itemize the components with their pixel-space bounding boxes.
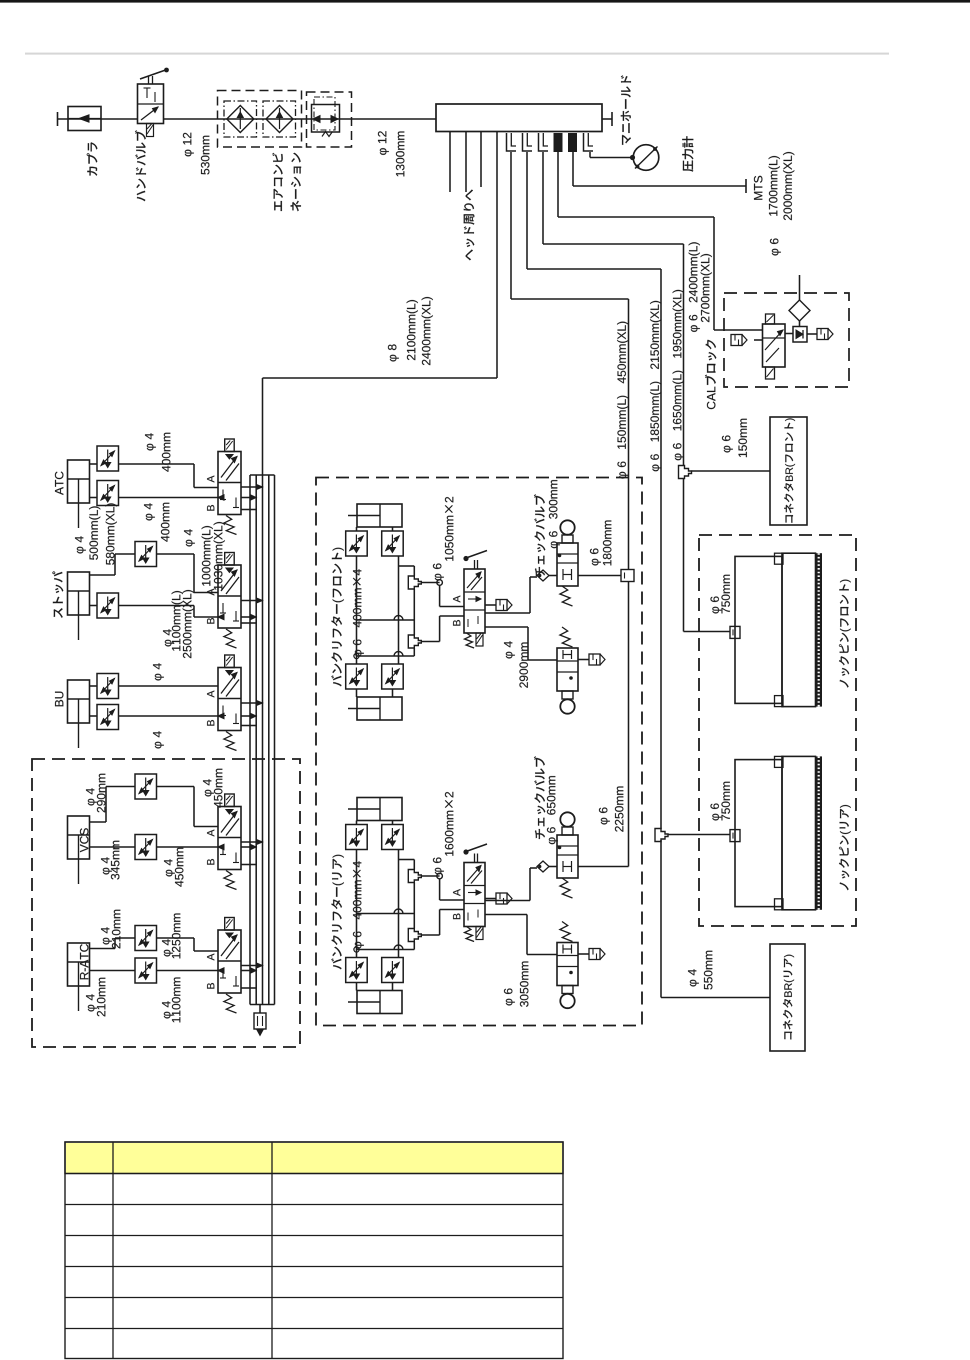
dashed box knock pins xyxy=(699,535,856,926)
cylinder bank lifter rear upper xyxy=(357,798,402,821)
CAL right muffler xyxy=(807,333,817,335)
wire check valve front output 1800mm xyxy=(578,575,621,577)
wire branch to knockpin rear (1850mm) xyxy=(526,152,528,269)
label バンクリフター(リア) xyxy=(331,855,344,970)
dashed box bank lifters xyxy=(316,478,642,1026)
speed controller bank lifter rear l2 xyxy=(392,983,394,991)
speed controller bank lifter front l2 xyxy=(392,689,394,697)
cylinder bank lifter front upper xyxy=(357,504,402,527)
wire front valve to check valve xyxy=(485,612,530,614)
connector BR front コネクタBR(フロント) xyxy=(770,417,807,525)
cylinder ATC xyxy=(68,460,90,503)
wires bank lifter front manifold tees xyxy=(356,556,358,664)
cylinder bank lifter front lower xyxy=(357,697,402,720)
pipe label φ8 2100/2400 xyxy=(388,344,399,361)
tee fitting bank lifter front B xyxy=(408,635,421,648)
CAL filter diamond xyxy=(789,300,810,321)
check valve front チェックバルブ xyxy=(557,543,578,586)
wire bank lifter rear tee1 to valve A xyxy=(421,875,439,877)
cylinder bank lifter rear lower xyxy=(357,991,402,1014)
pipe label φ4 (BU top) xyxy=(153,663,164,680)
pipe label φ4 500mm(L) 580mm(XL) xyxy=(75,536,86,553)
tee fitting knock pin rear feed xyxy=(655,829,668,842)
speed controller BU-1 xyxy=(90,685,98,687)
speed controller VCS-2 xyxy=(90,846,136,848)
hand valve ハンドバルブ xyxy=(138,84,164,124)
page top bar xyxy=(0,0,970,3)
hand valve bank lifter front xyxy=(464,569,485,633)
pipe label φ4 1100mm(L) 2500mm(XL) xyxy=(163,629,174,646)
pipe label φ4 210mm (R-ATC bottom) xyxy=(86,994,97,1011)
knock pin rear port fitting xyxy=(730,830,740,842)
regulator box xyxy=(307,92,352,147)
manifold マニホールド xyxy=(436,104,602,132)
header rule xyxy=(25,53,889,55)
speed controller ATC-1 xyxy=(90,463,98,465)
pipe label φ4 450mm (VCS top) xyxy=(203,779,214,796)
fitting on 150 line xyxy=(621,570,634,582)
speed controller stopper-1 xyxy=(90,574,116,576)
cylinder VCS xyxy=(68,816,90,859)
pressure gauge 圧力計 xyxy=(633,145,659,171)
dashed box VCS R-ATC xyxy=(32,759,300,1047)
speed controller bank lifter rear u2 xyxy=(392,821,394,825)
wire ATC A xyxy=(193,464,195,488)
muffler bank lifter front xyxy=(485,604,496,606)
speed controller VCS-1 xyxy=(90,821,107,823)
wire branch to connector BR front (1650mm) xyxy=(542,152,544,244)
valve BU solenoid 5/2 xyxy=(218,668,241,731)
knock pin front body xyxy=(735,556,782,703)
wire R-ATC A xyxy=(193,938,195,951)
wire supply main line xyxy=(58,118,138,120)
wire VCS A xyxy=(193,787,195,827)
valve 3/2 front xyxy=(557,648,578,691)
check valve front diamond xyxy=(537,570,549,581)
valve stopper solenoid 5/2 xyxy=(218,565,241,628)
wire front valve B to 3/2 valve xyxy=(485,626,528,628)
pipe label φ4 1100mm xyxy=(162,1001,173,1018)
pipe label φ4 450mm (VCS bottom) xyxy=(164,859,175,876)
knock pin rear body xyxy=(735,760,782,907)
pipe label φ12 1300mm xyxy=(378,131,389,155)
pipe label φ4 (BU bottom) xyxy=(153,731,164,748)
wire bank lifter front tee1 to valve A xyxy=(421,582,439,584)
pipe label φ4 345mm xyxy=(101,857,112,874)
speed controller bank lifter rear l1 xyxy=(356,983,358,991)
rail end fitting xyxy=(259,1005,261,1014)
wire MTS branch xyxy=(572,152,574,186)
muffler bank lifter rear xyxy=(485,898,496,900)
speed controller BU-2 xyxy=(90,715,98,717)
speed controller ATC-2 xyxy=(90,497,98,499)
speed controller R-ATC-1 xyxy=(90,948,116,950)
CAL left muffler xyxy=(754,339,763,341)
valve 3/2 rear xyxy=(557,943,578,986)
parts table xyxy=(65,1142,563,1359)
pipe label φ4 400mm (ATC) xyxy=(145,433,156,450)
valve ATC solenoid 5/2 xyxy=(218,452,241,515)
muffler 3/2 rear xyxy=(578,953,589,955)
wire bank lifter rear tee2 to valve B xyxy=(421,934,439,936)
lines to head area ヘッド周りへ xyxy=(449,132,451,193)
label バンクリフター(フロント) xyxy=(331,548,344,687)
coupler カプラ xyxy=(57,112,59,126)
speed controller bank lifter front l1 xyxy=(356,689,358,697)
pipe label φ4 1000mm(L) 1030mm(XL) xyxy=(184,529,195,546)
speed controller bank lifter front u1 xyxy=(356,527,358,531)
check valve rear diamond xyxy=(537,861,549,872)
air combination unit エアコンビネーション xyxy=(218,91,302,148)
wire CAL block branch xyxy=(557,152,559,217)
valve R-ATC solenoid 5/2 xyxy=(218,930,241,993)
pipe label φ4 210mm (R-ATC top) xyxy=(101,927,112,944)
pipe label φ12 530mm xyxy=(183,133,194,157)
tee fitting bank lifter rear A xyxy=(408,870,421,883)
tee fitting bank lifter front A xyxy=(408,576,421,589)
speed controller stopper-2 xyxy=(90,605,98,607)
CAL check valve xyxy=(785,333,793,335)
manifold plugged ports xyxy=(554,133,563,152)
wires bank lifter rear manifold tees xyxy=(356,850,358,958)
CAL block CALブロック xyxy=(724,293,849,387)
check valve rear チェックバルブ xyxy=(557,835,578,878)
wire stopper A xyxy=(193,554,195,593)
wire bank lifter front tee2 to valve B xyxy=(421,641,439,643)
valve supply rail bus xyxy=(249,475,251,1005)
speed controller bank lifter rear u1 xyxy=(356,821,358,825)
wire rear valve to check valve xyxy=(485,900,530,902)
pipe label φ4 400mm (stopper) xyxy=(144,503,155,520)
knock pin front port fitting xyxy=(730,626,740,638)
wire branch to check valves (150mm) xyxy=(510,152,512,299)
wire phi8 feed to valve rail xyxy=(496,132,498,379)
cylinder ストッパ xyxy=(68,572,90,615)
manifold outlet fittings xyxy=(507,133,517,151)
muffler 3/2 front xyxy=(578,659,589,661)
pipe label φ4 1250mm xyxy=(162,939,173,956)
pipe label φ4 290mm xyxy=(86,788,97,805)
cylinder R-ATC xyxy=(68,943,90,986)
CAL valve xyxy=(763,324,786,367)
valve VCS solenoid 5/2 xyxy=(218,807,241,870)
wire rear valve B to 3/2 valve xyxy=(485,914,527,916)
speed controller R-ATC-2 xyxy=(90,970,136,972)
cylinder BU xyxy=(68,680,90,723)
speed controller bank lifter front u2 xyxy=(392,527,394,531)
connector BR rear コネクタBR(リア) xyxy=(770,944,805,1051)
pressure gauge branch xyxy=(589,152,591,158)
tee fitting to connector BR front xyxy=(679,466,692,479)
hand valve bank lifter rear xyxy=(464,863,485,927)
tee fitting bank lifter rear B xyxy=(408,929,421,942)
